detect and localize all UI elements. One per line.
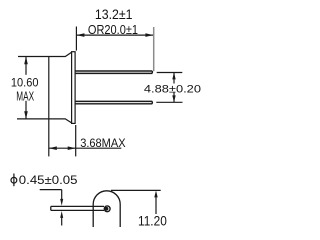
- flange (can header rim): [72, 52, 76, 124]
- svg-text:3.68MAX: 3.68MAX: [80, 138, 126, 150]
- dimension 3.68MAX: left arrowhead: [49, 146, 57, 150]
- Φ0.45 upper arrowhead (pointing down): [60, 199, 63, 206]
- dimension 10.60 MAX: dimension line: [25, 57, 27, 119]
- dimension OR20.0±1: right arrowhead: [145, 33, 153, 37]
- svg-text:13.2±1: 13.2±1: [95, 6, 133, 22]
- can body (bottom view, dome up): [93, 191, 120, 227]
- leader line for Φ0.45: [40, 190, 62, 200]
- extension line at flange right face: [75, 125, 77, 156]
- pin eyelet circle: [104, 206, 110, 212]
- svg-text:10.60: 10.60: [11, 75, 39, 89]
- pin eyelet center dot: [105, 207, 109, 211]
- svg-text:OR20.0±1: OR20.0±1: [88, 23, 138, 37]
- phi symbol of Φ0.45±0.05: [13, 174, 15, 187]
- extension line at flange face: [75, 27, 77, 51]
- svg-text:MAX: MAX: [16, 89, 34, 103]
- svg-text:4.88±0.20: 4.88±0.20: [144, 84, 201, 96]
- dimension 11.20: arrowhead and stem: [154, 191, 157, 198]
- lead 2 (bottom lead, side view): [75, 101, 152, 103]
- dimension 11.20: extension line at dome top: [111, 189, 161, 191]
- can body outline (side view): top edge + extension: [18, 52, 72, 56]
- dimension 3.68MAX: right arrowhead: [68, 146, 76, 150]
- dimension 4.88±0.20: top extension line: [157, 72, 183, 74]
- can body outline (side view): bottom edge + extension: [17, 119, 72, 123]
- dimension 4.88±0.20: top arrow and stem: [172, 73, 175, 80]
- svg-text:0.45±0.05: 0.45±0.05: [19, 173, 78, 187]
- text mask 10.60 MAX: [10, 75, 41, 101]
- dimension 10.60: bottom arrowhead: [24, 111, 28, 119]
- svg-text:11.20: 11.20: [138, 213, 167, 228]
- dimension 10.60: top arrowhead: [24, 57, 28, 65]
- extension line at lead tip (grey): [153, 27, 155, 71]
- Φ0.45 lower arrowhead (pointing up) and stem: [60, 211, 63, 218]
- dimension 3.68MAX: dimension/leader line: [49, 147, 122, 149]
- can body outline (side view): left face + extension below: [48, 57, 50, 157]
- pin (bottom view): [51, 206, 104, 210]
- dimension 4.88±0.20: bottom extension line: [156, 101, 182, 103]
- dimension 4.88±0.20: bottom arrow and stem: [172, 95, 175, 102]
- dimension 13.2±1 / OR20.0±1: dimension line: [76, 34, 153, 36]
- dimension OR20.0±1: left arrowhead: [76, 33, 84, 37]
- lead 1 (top lead, side view): [75, 71, 152, 73]
